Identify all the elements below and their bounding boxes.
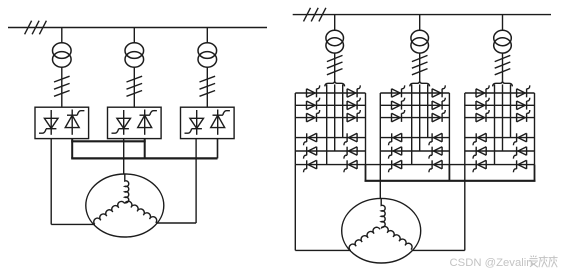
3-phase splitter bracket bridge 1 (325, 81, 345, 87)
wire transformer T6 to bridge 3 (502, 53, 504, 81)
left bus 3-phase slashes (25, 21, 47, 35)
bridge 2 right rail (448, 93, 450, 165)
wire bridge3 right rail down to output bus (534, 165, 536, 181)
converter box 1 outline (35, 107, 89, 138)
bridge 3 row 5 wire (465, 150, 535, 152)
bridge 3 row 2 wire (465, 104, 535, 106)
wire transformer T2 to converter box 2 (133, 67, 135, 107)
bridge 2 row 5 wire (380, 150, 449, 152)
thyristor bridge1 row1 right (347, 85, 360, 97)
wire box3 output to motor phase C (vertical) (195, 139, 197, 223)
neutral rail upper (71, 140, 146, 142)
3-phase splitter bracket bridge 3 (493, 81, 513, 87)
wire bus to transformer T5 (419, 15, 421, 31)
bridge 1 row 4 wire (295, 137, 365, 139)
thyristor bridge3 row1 left (476, 85, 489, 97)
bridge 3 phase feeder b (to row 5) (502, 84, 504, 151)
thyristor box1 right (up) (65, 110, 84, 135)
thyristor bridge2 row2 right (432, 98, 445, 110)
motor M2 winding phase A coil (lower-left) (348, 226, 380, 251)
thyristor box3 right (up) (211, 110, 230, 135)
thyristor bridge3 row4 left (473, 133, 486, 145)
wire bridge3 left rail to motor phase C (vertical) (464, 165, 466, 251)
wire to motor M2 phase A (horizontal) (295, 249, 351, 251)
transformer T1 (53, 43, 72, 67)
thyristor bridge2 row5 right (429, 147, 442, 159)
motor M1 winding phase B coil (top) (125, 174, 129, 203)
right supply bus (293, 14, 551, 16)
bridge 3 row 3 wire (465, 117, 535, 119)
thyristor bridge3 row1 right (517, 85, 530, 97)
3-phase splitter bracket bridge 2 (410, 81, 430, 87)
thyristor bridge2 row6 right (429, 160, 442, 172)
bridge 2 row 4 wire (380, 137, 449, 139)
converter box 3 outline (181, 107, 235, 138)
thyristor bridge3 row6 left (473, 160, 486, 172)
thyristor bridge1 row3 left (307, 110, 320, 122)
bridge 1 row 1 wire (295, 92, 365, 94)
bridge 2 row 2 wire (380, 104, 449, 106)
3-phase slashes on bridge wire 1 (327, 55, 343, 74)
wire to motor phase A (horizontal) (51, 223, 95, 225)
watermark text (450, 257, 533, 269)
transformer T2 (125, 43, 144, 67)
thyristor bridge3 row3 right (517, 110, 530, 122)
bridge 2 row 1 wire (380, 92, 449, 94)
thyristor bridge1 row4 right (344, 133, 357, 145)
bridge 1 phase feeder c (to row 4) (342, 84, 344, 137)
thyristor bridge3 row2 right (517, 98, 530, 110)
motor M2 winding phase B coil (top) (381, 199, 385, 228)
wire bridge1 left rail to motor phase A (vertical) (294, 165, 296, 251)
3-phase slashes on wire 1 (54, 76, 70, 96)
converter box 2 outline (108, 107, 162, 138)
wire transformer T4 to bridge 1 (334, 53, 336, 81)
right bus 3-phase slashes (304, 8, 326, 22)
thyristor bridge2 row3 left (392, 110, 405, 122)
wire bus to transformer T6 (502, 15, 504, 31)
thyristor bridge3 row5 right (513, 147, 526, 159)
3-phase slashes on bridge wire 3 (495, 55, 511, 74)
3-phase slashes on wire 2 (127, 76, 143, 96)
wire bridge2 left rail to motor phase B (379, 165, 381, 199)
transformer T3 (198, 43, 217, 67)
watermark glyph hui (539, 256, 548, 268)
thyristor bridge2 row2 left (392, 98, 405, 110)
3-phase slashes on wire 3 (200, 76, 216, 96)
thyristor bridge2 row3 right (432, 110, 445, 122)
left supply bus (8, 27, 267, 29)
wire box1 output to motor phase A (vertical) (50, 139, 52, 225)
svg-text:CSDN @Zevalin: CSDN @Zevalin (450, 257, 533, 269)
bridge 1 row 3 wire (295, 117, 365, 119)
wire bus to transformer T2 (133, 28, 135, 44)
wire bridge1 right rail down to output bus (365, 165, 367, 181)
thyristor bridge3 row5 left (473, 147, 486, 159)
bridge 2 phase feeder b (to row 5) (419, 84, 421, 151)
watermark glyph ai (529, 255, 538, 267)
bridge 3 row 1 wire (465, 92, 535, 94)
thyristor bridge1 row6 right (344, 160, 357, 172)
wire bridge2 right rail down to output bus (448, 165, 450, 181)
wire box1 right output down (neutral rect left edge) (71, 139, 73, 159)
bridge 2 row 3 wire (380, 117, 449, 119)
bridge 3 phase feeder a (to row 6) (494, 84, 496, 164)
wire bus to transformer T4 (334, 15, 336, 31)
bridge 1 row 2 wire (295, 104, 365, 106)
wire bus to transformer T3 (206, 28, 208, 44)
motor M1 winding phase C coil (lower-right) (125, 200, 158, 223)
thyristor bridge1 row1 left (307, 85, 320, 97)
transformer T6 (494, 30, 512, 53)
row 6 wire continuous across bridges (295, 164, 534, 166)
wire transformer T5 to bridge 2 (419, 53, 421, 81)
thyristor bridge1 row4 left (304, 133, 317, 145)
output bus rail (365, 180, 536, 182)
wire transformer T1 to converter box 1 (61, 67, 63, 107)
wire to motor M2 phase C (horizontal) (412, 249, 465, 251)
thyristor box2 left (down) (112, 110, 131, 135)
bridge 2 phase feeder c (to row 4) (427, 84, 429, 137)
neutral rail lower (71, 157, 217, 159)
thyristor bridge2 row6 left (389, 160, 402, 172)
bridge 3 left rail (464, 93, 466, 165)
bridge 3 right rail (534, 93, 536, 165)
thyristor bridge3 row2 left (476, 98, 489, 110)
thyristor bridge1 row5 right (344, 147, 357, 159)
watermark glyph hui (549, 256, 558, 268)
thyristor bridge1 row6 left (304, 160, 317, 172)
thyristor bridge3 row3 left (476, 110, 489, 122)
transformer T4 (326, 30, 344, 53)
motor M1 winding phase A coil (lower-left) (92, 200, 124, 224)
thyristor box3 left (down) (185, 110, 204, 135)
bridge 1 left rail (294, 93, 296, 165)
thyristor bridge1 row5 left (304, 147, 317, 159)
bridge 2 phase feeder a (to row 6) (411, 84, 413, 164)
thyristor box2 right (up) (138, 110, 157, 135)
bridge 1 row 5 wire (295, 150, 365, 152)
bridge 1 right rail (365, 93, 367, 165)
thyristor bridge3 row6 right (513, 160, 526, 172)
thyristor bridge2 row1 left (392, 85, 405, 97)
thyristor bridge2 row4 left (389, 133, 402, 145)
wire to motor phase C (horizontal) (156, 222, 196, 224)
thyristor bridge1 row2 left (307, 98, 320, 110)
thyristor bridge2 row4 right (429, 133, 442, 145)
bridge 3 phase feeder c (to row 4) (510, 84, 512, 137)
bridge 3 row 4 wire (465, 137, 535, 139)
thyristor box1 left (down) (39, 110, 58, 135)
bridge 1 phase feeder a (to row 6) (326, 84, 328, 164)
motor M1 (left) stator circle (86, 174, 164, 237)
thyristor bridge1 row3 right (347, 110, 360, 122)
bridge 2 left rail (379, 93, 381, 165)
bridge 1 phase feeder b (to row 5) (334, 84, 336, 151)
motor M2 (right) stator circle (342, 198, 421, 263)
3-phase slashes on bridge wire 2 (412, 55, 428, 74)
wire bus to transformer T1 (61, 28, 63, 44)
thyristor bridge1 row2 right (347, 98, 360, 110)
wire box2 right output down (neutral rect right edge) (144, 139, 146, 159)
wire transformer T3 to converter box 3 (206, 67, 208, 107)
wire box2 output to motor phase B (123, 139, 125, 175)
wire box3 right output down to neutral rail (217, 139, 219, 159)
transformer T5 (411, 30, 429, 53)
thyristor bridge3 row4 right (513, 133, 526, 145)
thyristor bridge2 row5 left (389, 147, 402, 159)
thyristor bridge2 row1 right (432, 85, 445, 97)
motor M2 winding phase C coil (lower-right) (381, 225, 413, 250)
